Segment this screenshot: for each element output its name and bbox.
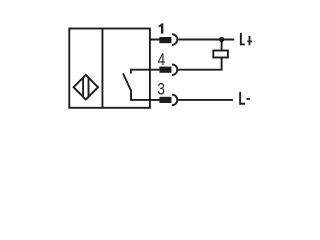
wire pin1 inner	[150, 39, 171, 41]
svg-text:4: 4	[158, 51, 166, 69]
pin 3 male contact bar	[159, 97, 171, 103]
label L+	[240, 33, 245, 46]
load resistor box	[213, 51, 228, 58]
switch contact terminal stub (to pin 4)	[130, 70, 132, 74]
wire load to pin4	[178, 58, 221, 70]
sensor body outline	[69, 29, 150, 108]
junction node	[219, 37, 224, 42]
sensor body divider	[101, 29, 103, 108]
wire junction to load	[221, 40, 223, 51]
pin 4 male contact bar	[159, 67, 171, 73]
switch contact lower terminal (to pin 3)	[130, 90, 132, 100]
switch contact blade (NO)	[123, 73, 131, 90]
svg-text:3: 3	[157, 80, 165, 98]
wire pin3 inner	[130, 99, 171, 101]
pin 3 socket half-circle	[172, 95, 177, 106]
wire pin4 inner	[130, 69, 171, 71]
inductive proximity sensor symbol	[74, 75, 98, 100]
wire pin3 to L-	[178, 99, 233, 101]
pin 1 male contact bar	[159, 37, 171, 43]
pin 4 socket half-circle	[172, 64, 177, 75]
pin 1 socket half-circle	[172, 34, 177, 45]
pin 1 label	[159, 23, 164, 33]
wire pin1 to L+	[178, 39, 234, 41]
label L-	[239, 92, 245, 105]
